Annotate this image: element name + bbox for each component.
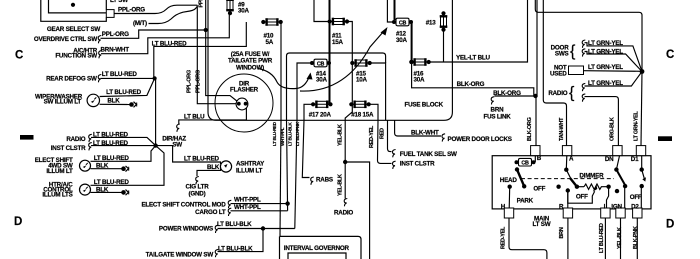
svg-text:BLK: BLK [96,186,109,193]
fuse #13 (vertical) [440,11,448,32]
flasher pin left [237,102,241,106]
lamp wiper/washer [87,94,99,106]
svg-text:INTERVAL GOVERNOR: INTERVAL GOVERNOR [284,245,350,252]
svg-text:PPL-ORG: PPL-ORG [102,31,129,38]
main lt sw box [492,156,651,209]
svg-text:PARK: PARK [517,198,534,205]
svg-text:RABS: RABS [316,177,333,184]
circuit breaker main lt sw [515,158,536,166]
svg-text:YEL-LT BLU: YEL-LT BLU [456,55,490,62]
svg-text:LT BLU-RED: LT BLU-RED [93,132,129,139]
wire BLK-PNK from D2 [636,218,638,259]
hook cargo lt [228,208,231,216]
wire I contact to pad [607,187,609,209]
svg-text:DN: DN [605,156,614,163]
wire thin L to CB12 left [387,0,394,22]
contact dot inside gear select sw [71,3,75,7]
rheostat zigzag [584,184,609,189]
wire BLK-ORG from #16 left [412,62,534,96]
contact dot park circuit [556,185,560,189]
gear select sw inner box [49,0,107,13]
wire fuse10 right lead down [280,22,282,120]
svg-text:PPL: PPL [199,0,205,8]
hook inst clstr right [392,161,395,169]
svg-text:OFF: OFF [630,194,642,201]
svg-text:B: B [537,155,542,162]
wire LT BLU-RED radio [91,137,156,145]
svg-text:LT SW: LT SW [533,221,551,228]
gear select sw outer box [41,0,107,21]
svg-text:OFF: OFF [533,186,545,193]
svg-text:#18 15A: #18 15A [351,111,374,118]
fuse #10 [261,18,283,26]
svg-text:WINDOW): WINDOW) [236,64,264,71]
interval governor inner box [288,253,346,259]
dir flasher outer circle [215,74,273,132]
svg-text:LT GRN-YEL: LT GRN-YEL [588,80,623,87]
fuse block box [208,0,452,120]
junction dot on PPL-ORG line B [204,28,208,32]
DN switch contact [614,167,618,171]
circuit breaker #14 [310,59,331,67]
wire LT BLU-BLK tailgate [218,229,264,252]
page edge connector bar left [20,135,34,140]
wire #13 bottom lead [443,30,445,63]
bottom pad D2 [633,208,642,218]
svg-text:PPL-ORG: PPL-ORG [196,70,202,93]
wire LT GRN-YEL from top [535,0,642,72]
wire BLK-WHT [395,120,441,136]
wire #11 right lead [347,22,352,64]
fuse #17 [311,101,333,109]
wire #15 left lead down to #18 [351,63,353,104]
hook radio [89,134,92,142]
svg-text:WHT-PPL: WHT-PPL [234,204,261,211]
head switch blade [517,170,524,187]
wire YEL-BLK from IGN [620,218,622,259]
hook RABS [311,177,314,185]
wire LT BLU-RED drop [280,120,281,236]
wire BRN from R [567,218,569,259]
junction dot power windows [261,226,265,230]
junction dot lt grn-yel [640,69,645,74]
svg-text:OFF: OFF [576,193,588,200]
wire R contact to pad [567,191,569,209]
svg-text:FUSE BLOCK: FUSE BLOCK [405,102,444,109]
svg-text:BLK-ORG: BLK-ORG [457,81,485,88]
wire RED drop [388,120,392,151]
wire BLK htr lamp [91,191,122,193]
lamp elect shift [80,160,91,171]
svg-text:YEL-BLK: YEL-BLK [617,227,623,249]
svg-text:H: H [501,203,506,210]
svg-text:FLASHER: FLASHER [230,87,259,94]
contact dot R [566,188,570,192]
fuse #9 (vertical) [226,0,234,15]
wire DN blade to IGN pad [624,186,626,209]
wiper junction dot [575,185,579,189]
hook a/c/htr [99,51,102,59]
wire #18 right lead [369,104,378,120]
svg-text:BLK-PNK: BLK-PNK [633,226,639,249]
svg-text:CARGO LT: CARGO LT [195,209,226,216]
svg-text:ELECT SHIFT CONTROL MOD: ELECT SHIFT CONTROL MOD [141,201,226,208]
svg-text:LT GRN-YEL: LT GRN-YEL [588,48,623,55]
svg-text:TAILGATE WINDOW SW: TAILGATE WINDOW SW [146,252,214,259]
svg-text:FUS LINK: FUS LINK [483,113,511,120]
wire LT BLU dir/haz to flasher [179,105,247,125]
hook tailgate [215,249,218,257]
svg-text:PPL-ORG: PPL-ORG [118,7,145,14]
svg-text:POWER DOOR LOCKS: POWER DOOR LOCKS [448,136,512,143]
hook cig ltr [196,177,199,185]
wire YEL-LT BLU from #16 right [429,0,528,62]
svg-text:BLK-WHT: BLK-WHT [411,129,439,136]
wire LT BLU-RED inst clstr [91,145,156,147]
contact dot H [508,185,512,189]
svg-text:30A: 30A [316,77,328,84]
bottom pad I [601,208,610,218]
wire BLK from lamp [100,103,130,105]
wire BLK-ORG fus link branch [495,95,534,97]
wire YEL-BLK drop [345,104,352,198]
junction dot wht-ppl [285,201,289,205]
wire LT GRN-YEL door sw 1 [585,43,643,72]
wire DN pad to contact [616,156,619,170]
wire #16 left junction dots [409,60,413,64]
svg-text:SW: SW [172,142,182,149]
DN blade end dot [623,184,627,188]
flasher pin right [244,102,248,106]
connector on gear select sw [106,10,114,18]
svg-text:ASHTRAY: ASHTRAY [236,161,265,168]
hook radio bottom [344,199,347,207]
wire branch right from yel-blk dot [345,162,369,259]
svg-text:GEAR SELECT SW: GEAR SELECT SW [47,26,100,33]
svg-text:LT BLU-PNK: LT BLU-PNK [295,121,300,146]
ground htr lamp [121,190,129,196]
contact dot A switch [564,168,568,172]
contact dot I [606,185,610,189]
svg-text:RADIO: RADIO [334,210,353,217]
bottom pad IGN [616,208,625,218]
svg-text:5A: 5A [266,39,274,46]
wiper arrow head [593,184,598,192]
ground elect shift lamp [121,166,129,172]
A switch blade thick [570,178,577,187]
dimmer dashed linkage [521,178,614,180]
bottom pad H [504,208,513,218]
D1 switch blade w/ arrow [642,170,645,180]
svg-text:LT BLU-BLK: LT BLU-BLK [217,221,252,228]
svg-text:#17 20A: #17 20A [309,111,332,118]
ground wiper lamp [129,102,137,108]
svg-text:WHT-PPL: WHT-PPL [234,196,261,203]
wire #17 left lead [304,104,313,120]
page edge connector bar right [658,136,672,141]
svg-text:LT BLU-RED: LT BLU-RED [93,140,129,147]
wire WHT-PPL mod [231,203,288,205]
wire WHT-PPL cargo [231,210,288,212]
fuse #16 [409,58,431,66]
wire WHT-PPL drop [287,120,288,211]
svg-text:TAN-WHT: TAN-WHT [559,117,565,141]
svg-text:SWS: SWS [555,51,569,58]
svg-text:D2: D2 [631,203,639,210]
svg-text:RED: RED [380,128,386,139]
ashtray illum lamp [220,161,231,172]
svg-text:FUEL TANK SEL SW: FUEL TANK SEL SW [400,151,457,158]
svg-text:LT BLU-BLK: LT BLU-BLK [288,122,293,146]
svg-text:C: C [666,49,674,61]
head switch upper contact [515,167,519,171]
junction dot yel-blk [343,160,347,164]
svg-text:D1: D1 [631,156,639,163]
svg-text:LT BLU-RED: LT BLU-RED [94,155,130,162]
hook radio 1 [582,83,585,91]
hook power windows [215,225,218,233]
junction dot rear defog [153,76,157,80]
svg-text:30A: 30A [414,77,426,84]
wire LT GRN-YEL radio 1 [585,72,643,87]
fuse #15 [350,59,372,67]
svg-text:LT BLU-RED: LT BLU-RED [272,121,277,146]
wire ORG-BLK radio 2 [585,97,619,146]
wire #11 left feed from top [314,0,329,22]
leader arrow to CB12 [300,31,384,91]
leader arrow to CB14 [258,69,310,89]
wire B pad to CB [534,156,536,163]
svg-text:LT BLU-RED: LT BLU-RED [599,223,605,253]
fuse #18 [349,101,371,109]
svg-text:LT SW: LT SW [110,0,128,4]
wire BLK-ORG from top [536,0,537,146]
svg-text:C: C [15,50,23,62]
wire LT BLU-BLK power windows [218,228,295,230]
svg-text:WHT-PPL: WHT-PPL [280,127,285,146]
wire PPL-ORG from gear select sw [114,5,197,13]
bottom pad R [563,208,572,218]
svg-text:BRN: BRN [559,227,565,238]
svg-text:(M/T): (M/T) [133,20,147,27]
svg-text:R: R [559,203,564,210]
svg-text:BRN-WHT: BRN-WHT [101,46,130,53]
off contact dot DN [615,189,619,193]
wire CB14 left lead [297,63,311,120]
wire LT BLU-RED elect shift lamp [91,146,156,162]
svg-text:INST CLSTR: INST CLSTR [51,145,86,152]
svg-text:LT GRN-YEL: LT GRN-YEL [588,64,623,71]
wire TAN-WHT from top [543,0,566,146]
svg-text:LT BLU-RED: LT BLU-RED [106,89,142,96]
svg-text:30A: 30A [238,8,250,15]
wire LT GRN-YEL down to D1 [641,72,642,146]
hook door sw 2 [582,49,585,57]
svg-text:PPL-ORG: PPL-ORG [187,70,193,93]
svg-text:REAR DEFOG SW: REAR DEFOG SW [46,76,97,83]
svg-text:RADIO: RADIO [66,136,85,143]
terminal pad D1 [636,146,645,156]
hook fuel tank [392,150,395,158]
wire thick feed to CB12 [394,0,396,20]
svg-text:LT BLU-RED: LT BLU-RED [184,155,220,162]
wire wiper to rheostat [577,186,584,188]
wire LT BLU-RED from lamp [100,78,155,96]
svg-text:DIMMER: DIMMER [579,172,604,179]
svg-text:ILLUM LTS: ILLUM LTS [42,192,72,199]
interval governor box [280,236,362,259]
svg-text:POWER WINDOWS: POWER WINDOWS [159,226,213,233]
svg-text:YEL-BLK: YEL-BLK [338,124,344,146]
wire #15 right lead [370,63,385,120]
svg-text:YEL-BLK: YEL-BLK [338,174,344,196]
wire A pad to contact [565,156,568,170]
svg-text:10A: 10A [356,77,368,84]
svg-text:{: { [570,43,576,60]
wire RED-YEL drop [378,120,392,163]
DN switch blade [616,170,625,186]
svg-text:HEAD: HEAD [500,177,518,184]
wire LT BLU-RED from I [604,218,606,259]
hook power door locks [442,134,445,142]
hook door sw 1 [582,40,585,48]
svg-text:RADIO: RADIO [548,90,567,97]
svg-text:RED-YEL: RED-YEL [369,125,375,148]
wire LT GRN-YEL not used [584,70,643,73]
hook rear defog [98,75,101,83]
hook radio 2 [582,94,585,102]
wire LT BLU-RED rear defog [101,77,155,79]
svg-text:BLK-ORG: BLK-ORG [493,90,521,97]
wire LT BLU-RED to ashtray [156,146,221,164]
wire thick feed x=329.5 [329,0,331,104]
wire H contact to pad [508,187,511,209]
svg-text:BLK: BLK [107,97,120,104]
wire BLK ashtray to cig ltr [197,169,221,177]
hook dir/haz [177,124,180,132]
svg-text:ILLUM LT: ILLUM LT [46,168,73,175]
terminal pad B [531,146,540,156]
lamp htr/a/c [80,184,91,195]
svg-text:D: D [14,216,22,228]
wire LT BLU-BLK drop [295,120,297,228]
wire PPL-ORG overdrive [101,30,206,38]
wire LT BLU-PNK drop [302,120,309,177]
dir flasher connector circle [236,98,248,110]
svg-text:A: A [569,156,574,163]
terminal pad A [562,146,571,156]
hook elect shift mod [228,200,231,208]
svg-text:IGN: IGN [611,204,622,211]
wire LT BLU-RED htr lamp [91,146,165,186]
svg-text:OVERDRIVE CTRL SW: OVERDRIVE CTRL SW [34,36,97,43]
svg-text:LT BLU-RED: LT BLU-RED [94,179,130,186]
rheostat wiper loop [568,191,595,204]
not used resistor box [569,66,584,75]
svg-text:FUNCTION SW: FUNCTION SW [55,53,97,60]
svg-text:ILLUM LT: ILLUM LT [236,168,263,175]
wire LT BLU-RED trunk [154,22,247,146]
svg-text:LT BLU-RED: LT BLU-RED [102,71,138,78]
svg-text:LT BLU-RED: LT BLU-RED [152,41,188,48]
svg-text:15A: 15A [332,39,344,46]
wire D1 contact to D2 pad [640,186,642,209]
svg-text:RED-YEL: RED-YEL [500,226,506,249]
svg-text:D: D [666,219,674,231]
D1 switch contact [640,167,644,171]
hook inst clstr [89,143,92,151]
svg-text:{: { [569,85,575,102]
fuse #11 [328,18,350,26]
svg-text:SW ILLUM LT: SW ILLUM LT [44,99,82,106]
svg-text:30A: 30A [396,37,408,44]
wire PPL-ORG line A [197,5,236,104]
wire RED-YEL from H [509,218,547,259]
junction dot main [153,143,157,147]
svg-text:INST CLSTR: INST CLSTR [400,161,435,168]
hook brn fus link [491,97,494,105]
hook overdrive [98,36,101,44]
wire BLK elect shift lamp [91,168,122,170]
svg-text:LT BLU-BLK: LT BLU-BLK [218,245,253,252]
wire CB12 right lead thick down [411,22,413,62]
svg-text:LT GRN-YEL: LT GRN-YEL [588,40,623,47]
wire PPL-ORG line B [206,0,238,102]
svg-text:USED: USED [550,70,567,77]
svg-text:(GND): (GND) [189,191,206,198]
terminal pad DN [613,146,622,156]
circuit breaker #12 [392,18,413,26]
svg-text:LT GRN-YEL: LT GRN-YEL [634,110,640,141]
junction dot BLK-ORG [533,94,537,98]
svg-text:ORG-BLK: ORG-BLK [609,117,615,141]
wire BRN-WHT [101,15,229,54]
wire D1 pad to contact [641,156,643,170]
A switch blade thin [566,170,571,179]
wire WHT-PPL loop [287,53,386,120]
head switch blade end dot [522,184,526,188]
svg-text:LT BLU: LT BLU [184,113,205,120]
D1 lower contact dot [640,184,644,188]
svg-text:BLK: BLK [96,162,109,169]
svg-text:BLK-ORG: BLK-ORG [527,117,533,141]
wire (M/T) branch [149,7,198,24]
wire LT GRN-YEL door sw 2 [585,52,643,72]
svg-text:#13: #13 [426,19,437,26]
